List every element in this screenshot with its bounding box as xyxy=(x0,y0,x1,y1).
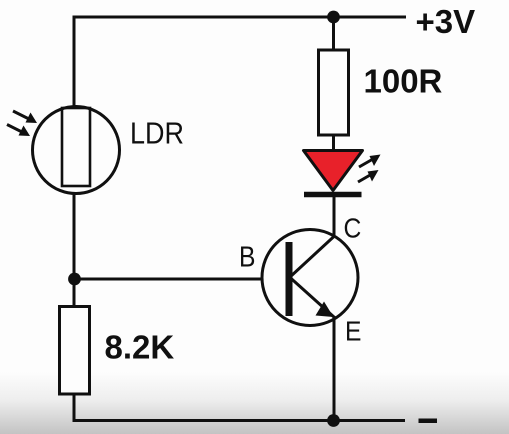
svg-text:100R: 100R xyxy=(364,63,443,100)
resistor 8.2K xyxy=(60,307,90,395)
resistor 100R xyxy=(319,50,349,135)
wire resistor to bottom rail xyxy=(73,394,76,422)
wire base horizontal xyxy=(74,278,288,281)
svg-text:E: E xyxy=(345,315,361,347)
emitter lead xyxy=(290,278,335,318)
svg-text:B: B xyxy=(239,241,255,273)
wire LED to collector xyxy=(333,195,336,238)
negative terminal symbol xyxy=(419,419,438,424)
transistor Q1 xyxy=(262,230,358,326)
wire resistor to LED xyxy=(332,135,335,152)
node bottom junction xyxy=(327,414,340,427)
wire left vertical upper xyxy=(73,16,76,109)
wire supply to resistor xyxy=(332,17,335,51)
node junction left (base node) xyxy=(68,273,81,286)
node top supply junction xyxy=(327,11,340,24)
LDR light arrow 2 xyxy=(7,125,30,137)
svg-text:LDR: LDR xyxy=(130,117,184,151)
wire bottom rail xyxy=(73,419,406,422)
base bar xyxy=(286,242,293,316)
collector lead xyxy=(290,236,335,278)
LDR xyxy=(33,107,120,194)
LED emission arrow 2 xyxy=(358,170,379,182)
LDR light arrow 1 xyxy=(13,111,37,123)
svg-text:C: C xyxy=(344,212,362,244)
wire top rail xyxy=(73,16,407,19)
svg-text:8.2K: 8.2K xyxy=(105,329,175,366)
wire emitter to bottom rail xyxy=(333,316,336,422)
wire left vertical lower xyxy=(73,192,76,307)
emitter arrowhead xyxy=(316,302,334,318)
LED D1 xyxy=(304,151,363,195)
svg-text:+3V: +3V xyxy=(416,3,476,40)
LED emission arrow 1 xyxy=(359,155,381,168)
